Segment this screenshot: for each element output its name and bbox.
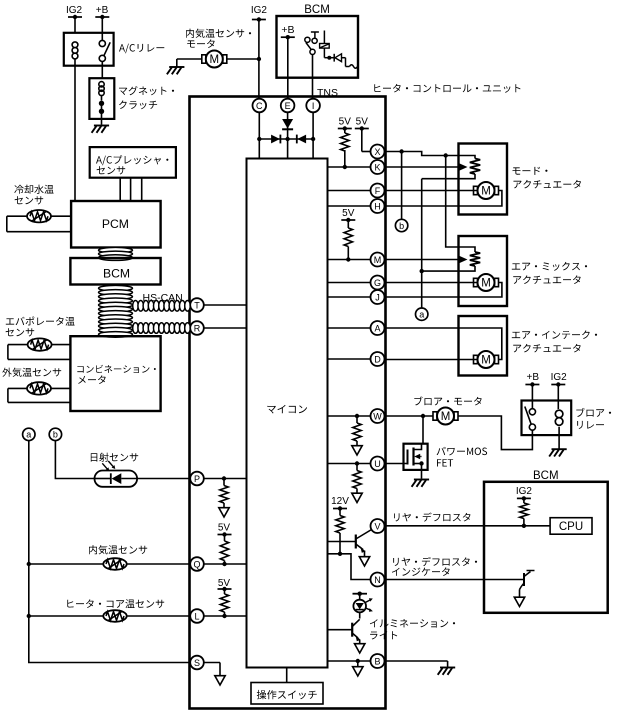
+B supply terminal (top-left) <box>95 5 109 40</box>
+B terminal (blower relay) <box>525 372 539 409</box>
svg-text:H: H <box>374 201 381 211</box>
svg-text:M: M <box>441 411 451 423</box>
wire A to intake motor <box>385 328 502 360</box>
wire relay coil to PCM <box>74 59 76 201</box>
label TNS <box>317 87 338 99</box>
label coolant temp sensor <box>14 185 53 205</box>
air-mix actuator motor <box>474 274 499 291</box>
power MOS FET symbol <box>385 444 424 479</box>
svg-text:IG2: IG2 <box>66 5 83 16</box>
twisted pair to T <box>133 301 191 312</box>
IG2 terminal (blower relay) <box>551 372 568 409</box>
svg-text:Q: Q <box>193 559 200 569</box>
label power MOS FET <box>437 447 488 467</box>
svg-text:BCM: BCM <box>304 4 330 16</box>
svg-text:M: M <box>481 186 491 198</box>
P pulldown resistor and arrow <box>219 479 229 518</box>
svg-text:T: T <box>194 300 200 310</box>
BCM interior lamp driver symbol <box>320 31 358 69</box>
diode I to E <box>297 135 306 144</box>
BCM box (bottom-right) <box>484 470 608 613</box>
svg-text:M: M <box>481 355 491 367</box>
wire U to microcontroller <box>328 461 371 465</box>
svg-text:D: D <box>374 354 381 364</box>
ground below blower relay <box>549 449 567 456</box>
svg-text:J: J <box>375 292 380 302</box>
5V rail (M pull-up) <box>341 208 355 262</box>
intake sensor motor M <box>202 51 227 68</box>
svg-text:IG2: IG2 <box>516 486 533 497</box>
label inside air temp sensor <box>89 545 147 554</box>
connector Q <box>190 557 204 571</box>
coolant temp sensor loop <box>7 216 71 232</box>
connector N <box>371 573 385 587</box>
svg-text:PCM: PCM <box>102 217 129 231</box>
label magnet clutch <box>119 86 174 109</box>
connector A <box>371 321 385 335</box>
wire P to microcontroller <box>204 476 247 480</box>
blower relay switch <box>525 407 536 431</box>
svg-text:M: M <box>481 278 491 290</box>
svg-text:+B: +B <box>281 24 294 36</box>
wire IG2 to connector C <box>258 20 260 99</box>
label ambient temp sensor <box>2 368 61 377</box>
svg-text:a: a <box>26 430 31 440</box>
node b (upper) <box>395 152 407 232</box>
wire D to microcontroller <box>328 358 371 360</box>
heater core temp thermistor <box>103 610 126 622</box>
svg-text:L: L <box>194 611 199 621</box>
combination meter box <box>70 336 160 411</box>
connector R <box>190 321 204 335</box>
blower relay coil <box>555 410 563 449</box>
wire G to microcontroller <box>328 282 371 284</box>
label air-intake actuator <box>512 330 597 352</box>
svg-text:M: M <box>210 54 220 66</box>
IG2 supply terminal (top-middle) <box>251 5 268 22</box>
svg-text:CPU: CPU <box>559 521 583 533</box>
illumination LED <box>353 592 373 619</box>
wires pressure sensor to PCM <box>120 178 142 201</box>
wire J to microcontroller <box>328 296 371 298</box>
svg-text:E: E <box>285 101 291 111</box>
svg-text:C: C <box>256 101 263 111</box>
wire A to microcontroller <box>328 327 371 329</box>
connector V <box>371 519 385 533</box>
BCM box (middle-left) <box>70 258 160 285</box>
wire G to air-mix motor <box>385 282 478 284</box>
wire sun sensor to P <box>137 478 190 480</box>
svg-text:U: U <box>374 459 381 469</box>
wire B to ground <box>385 661 448 667</box>
ground below magnet clutch <box>92 126 110 133</box>
label HS-CAN <box>143 292 183 304</box>
wire Q to microcontroller <box>204 563 247 565</box>
BCM indicator transistor <box>514 571 534 607</box>
wire BCM switch to connector I <box>312 55 314 99</box>
label rear defroster <box>394 513 471 522</box>
operation switch box 操作スイッチ <box>251 668 323 705</box>
coolant temp sensor thermistor <box>27 210 51 222</box>
connector D <box>371 352 385 366</box>
label intake sensor motor <box>186 29 251 48</box>
svg-text:G: G <box>374 278 381 288</box>
wire motor to IG2 line <box>227 57 261 61</box>
A/C relay coil <box>72 42 78 59</box>
ground below FET <box>412 480 430 487</box>
connector X <box>371 145 385 159</box>
connector C <box>252 99 266 113</box>
air-mix actuator box <box>459 236 508 306</box>
magnet clutch coil <box>99 82 104 101</box>
node b (lower) <box>49 428 61 440</box>
W pulldown resistor and arrow <box>352 416 362 455</box>
air-intake actuator motor <box>474 351 499 368</box>
mode actuator motor <box>474 182 499 199</box>
twisted wire bundle below BCM <box>99 285 133 337</box>
label illumination light <box>370 619 455 639</box>
wire N to BCM transistor <box>385 579 525 581</box>
svg-text:+B: +B <box>96 5 109 16</box>
svg-text:S: S <box>194 658 200 668</box>
svg-text:5V: 5V <box>339 117 352 128</box>
svg-text:TNS: TNS <box>317 87 338 99</box>
heater core temp sensor wire <box>29 615 190 617</box>
X branch to air-mix potentiometer <box>446 156 475 253</box>
node a (lower) <box>23 428 35 440</box>
connector W <box>371 409 385 423</box>
svg-text:BCM: BCM <box>103 266 130 280</box>
label evaporator temp sensor <box>6 317 75 337</box>
wire L to microcontroller <box>204 615 247 617</box>
wire F to mode motor <box>385 190 478 192</box>
evaporator temp sensor thermistor <box>28 338 52 350</box>
wire W to microcontroller <box>328 414 371 418</box>
air-mix potentiometer bottom to node a <box>422 266 475 271</box>
wire N route <box>328 554 371 580</box>
svg-text:F: F <box>375 186 381 196</box>
wire S to ground arrow <box>204 663 225 686</box>
svg-text:N: N <box>374 575 381 585</box>
wire W junction to FET drain <box>422 416 424 444</box>
wire K to microcontroller <box>328 166 371 168</box>
connector J <box>371 290 385 304</box>
power MOS FET box <box>404 444 428 470</box>
wire K wiper arrow <box>385 163 468 171</box>
wire blower motor to relay <box>458 416 532 450</box>
wire F to microcontroller <box>328 190 371 192</box>
connector E <box>281 99 295 113</box>
BCM tail-number-switch contacts <box>305 32 319 55</box>
svg-text:5V: 5V <box>218 523 231 534</box>
wire X to potentiometers <box>385 149 476 158</box>
diode on E line (down) <box>282 119 293 129</box>
PCM-BCM connector ellipses <box>99 247 133 260</box>
label blower motor <box>414 396 481 405</box>
air-intake actuator box <box>459 316 508 376</box>
wire +B to connector E <box>287 37 289 99</box>
ground at intake sensor motor <box>167 67 185 74</box>
wire M to microcontroller <box>328 259 371 261</box>
+B terminal inside BCM <box>281 24 295 39</box>
CPU box <box>550 518 592 535</box>
svg-text:a: a <box>419 310 424 320</box>
label heater control unit <box>374 84 520 93</box>
wire M wiper arrow <box>385 256 468 264</box>
wire C to microcontroller <box>257 112 261 158</box>
connector K <box>371 160 385 174</box>
wire D to intake motor <box>385 359 478 361</box>
magnet clutch contacts <box>99 101 104 125</box>
svg-text:BCM: BCM <box>533 470 559 482</box>
svg-text:K: K <box>374 162 380 172</box>
label rear defroster indicator <box>392 557 477 576</box>
wire relay switch to magnet clutch <box>101 62 103 79</box>
mode potentiometer <box>470 159 480 175</box>
U pulldown resistor and arrow <box>352 464 362 503</box>
wire H to microcontroller <box>328 205 371 207</box>
label mode actuator <box>513 167 582 189</box>
label A/C relay <box>119 44 164 54</box>
connector U <box>371 457 385 471</box>
A/C pressure sensor box <box>90 147 176 178</box>
BCM top box <box>277 4 359 78</box>
label air-mix actuator <box>512 262 587 284</box>
diode C to E <box>271 135 280 144</box>
inside air temp thermistor <box>103 558 126 570</box>
microcontroller box マイコン <box>247 159 328 668</box>
connector P <box>190 472 204 486</box>
svg-text:B: B <box>374 656 380 666</box>
svg-text:5V: 5V <box>356 117 369 128</box>
connector F <box>371 184 385 198</box>
ground right of B <box>438 668 456 675</box>
svg-text:+B: +B <box>527 372 540 383</box>
IG2 pull-up inside BCM <box>516 486 533 526</box>
wire node a common return <box>27 441 191 663</box>
svg-text:X: X <box>374 147 380 157</box>
label heater core temp sensor <box>67 599 164 608</box>
wire E to microcontroller <box>285 112 289 158</box>
wire R to microcontroller <box>204 327 247 329</box>
svg-text:b: b <box>399 221 404 231</box>
label sun sensor <box>91 453 138 462</box>
clamp diode row wire <box>259 138 313 140</box>
connector H <box>371 199 385 213</box>
PCM box <box>71 201 161 248</box>
mode potentiometer bottom to node a <box>422 174 475 179</box>
wire I to microcontroller <box>311 112 315 158</box>
svg-text:A: A <box>374 323 380 333</box>
blower motor M <box>433 408 458 425</box>
5V rail (K pull-up) <box>338 117 352 170</box>
svg-text:IG2: IG2 <box>251 5 268 16</box>
connector I <box>306 99 320 113</box>
svg-text:I: I <box>312 101 315 111</box>
svg-text:12V: 12V <box>331 496 349 507</box>
ambient temp sensor thermistor <box>27 382 51 394</box>
svg-text:5V: 5V <box>342 208 355 219</box>
ambient temp sensor loop <box>8 388 71 402</box>
wire B to microcontroller <box>328 659 371 676</box>
sun sensor photodiode <box>95 461 138 487</box>
wire ground to motor <box>177 59 202 67</box>
wire V to BCM CPU <box>385 524 551 528</box>
svg-text:W: W <box>373 411 382 421</box>
wire J to air-mix motor <box>385 283 502 298</box>
rear defroster transistor <box>328 530 372 567</box>
Q 5V pull-up <box>218 523 232 567</box>
wire T to microcontroller <box>204 304 247 306</box>
IG2 supply terminal (top-left) <box>66 5 83 33</box>
mode actuator box <box>459 144 508 215</box>
A/C relay switch <box>99 40 110 61</box>
svg-text:R: R <box>194 323 201 333</box>
connector L <box>190 609 204 623</box>
node a (upper) <box>416 179 428 321</box>
connector T <box>190 298 204 312</box>
label blower relay <box>576 408 611 429</box>
heater control unit outer box <box>190 97 386 709</box>
svg-text:V: V <box>374 521 380 531</box>
12V pull-up for N <box>331 496 349 556</box>
illumination transistor <box>328 619 365 653</box>
connector S <box>190 656 204 670</box>
connector B <box>371 654 385 668</box>
A/C relay box <box>64 33 114 66</box>
blower relay box <box>522 401 572 436</box>
svg-text:b: b <box>53 430 58 440</box>
5V rail to X <box>355 117 371 152</box>
air-mix potentiometer <box>470 252 480 266</box>
evaporator temp sensor loop <box>8 345 71 360</box>
svg-text:M: M <box>374 255 382 265</box>
svg-text:IG2: IG2 <box>551 372 568 383</box>
svg-text:P: P <box>194 474 200 484</box>
magnet clutch box <box>89 78 114 119</box>
inside air temp sensor wire <box>29 563 190 565</box>
twisted pair to R <box>133 323 191 334</box>
L 5V pull-up <box>218 578 232 618</box>
connector M <box>371 253 385 267</box>
wire H to mode motor <box>385 191 502 207</box>
wire W to blower motor <box>385 414 434 418</box>
connector G <box>371 276 385 290</box>
wire node b to sun sensor <box>55 441 94 479</box>
